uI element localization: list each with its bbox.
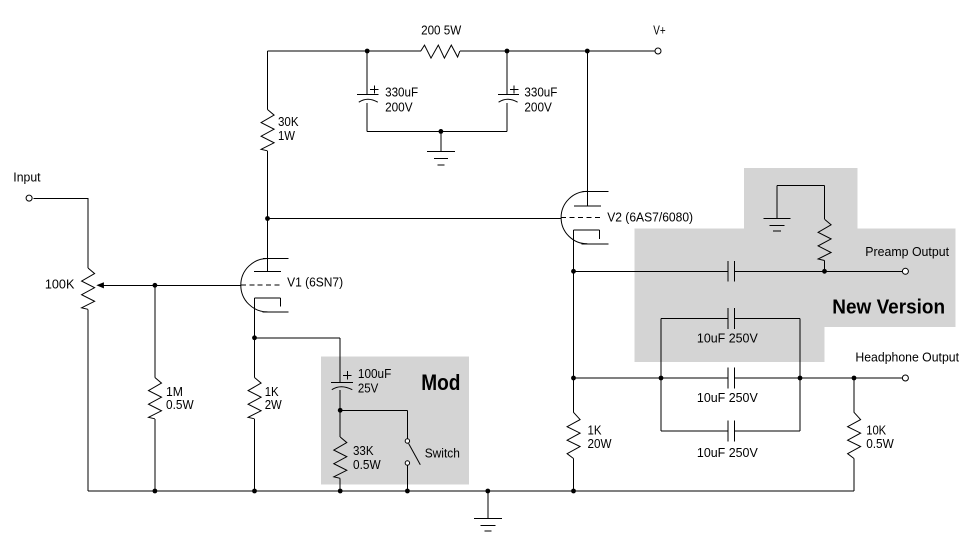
wire: 1M bottom to ground bus [154, 419, 156, 491]
svg-text:33K: 33K [353, 443, 374, 458]
node: headphone line left [571, 376, 576, 381]
svg-text:1W: 1W [278, 128, 296, 143]
label: 1K 2W [265, 384, 283, 412]
node: bus/33K [338, 489, 343, 494]
capacitor 10uF 250V (lower) [728, 421, 734, 442]
node: rail / C1 top [365, 49, 370, 54]
svg-text:V2 (6AS7/6080): V2 (6AS7/6080) [607, 210, 693, 225]
svg-text:Mod: Mod [421, 370, 460, 395]
capacitor 100uF 25V [331, 371, 353, 410]
pot wiper arrow [96, 282, 104, 288]
ground: filter caps [427, 131, 455, 165]
node: cap bus / ground [439, 129, 444, 134]
wire: junction up to preamp load resistor [824, 261, 826, 272]
svg-text:0.5W: 0.5W [166, 397, 194, 412]
svg-text:10uF 250V: 10uF 250V [697, 390, 758, 405]
gray highlight box: New Version lower tab [635, 327, 825, 362]
svg-text:20W: 20W [588, 436, 613, 451]
node: V1 cathode junction [252, 335, 257, 340]
wire: V2 plate drop [586, 51, 588, 206]
wire: ground bus [88, 490, 854, 492]
wire: switch bottom to ground bus [406, 465, 408, 491]
node: loop right [798, 376, 803, 381]
svg-text:New Version: New Version [832, 297, 945, 319]
label: 30K 1W [278, 114, 299, 143]
terminal: V+ [655, 48, 661, 54]
wire: lower parallel cap loop [661, 378, 800, 431]
label: 100uF 25V [358, 366, 391, 396]
svg-text:10uF 250V: 10uF 250V [697, 330, 758, 345]
node: bus/1M [153, 489, 158, 494]
wire: 10K bottom [853, 459, 855, 492]
wire: cathode junction to mod cap [255, 338, 341, 383]
resistor 1K 20W [567, 412, 580, 458]
gray highlight box: New Version main [635, 229, 956, 328]
potentiometer 100K element [82, 268, 95, 309]
svg-text:25V: 25V [358, 381, 379, 396]
triode V2 (6AS7/6080) [561, 191, 608, 271]
svg-text:2W: 2W [265, 397, 283, 412]
wire: preamp line right [735, 270, 903, 272]
wire: 1K 20W bottom to ground bus [573, 459, 575, 492]
svg-text:10uF 250V: 10uF 250V [697, 445, 758, 460]
wire: 1K bottom to ground bus [254, 419, 256, 491]
wire: cathode junction down to 1K [254, 338, 256, 378]
svg-text:330uF: 330uF [385, 84, 418, 99]
resistor 10K 0.5W [848, 412, 861, 458]
svg-text:Switch: Switch [425, 446, 460, 461]
wire: B+ rail right segment to V+ [460, 50, 655, 52]
wire: 33K bottom to ground bus [339, 478, 341, 491]
gray highlight box: New Version top notch [744, 168, 858, 229]
label: 1M 0.5W [166, 384, 194, 412]
node: bus/1K [252, 489, 257, 494]
resistor preamp load [818, 219, 831, 260]
wire: upper parallel cap loop [661, 319, 800, 379]
node: mod cap / switch branch [338, 408, 343, 413]
label: 330uF 200V (C1) [385, 84, 418, 114]
node: bus/main ground [485, 489, 490, 494]
triode V1 (6SN7) [241, 259, 289, 338]
wire: filter cap bottoms bus [367, 130, 507, 132]
wire: 10K top [853, 378, 855, 412]
label: 1K 20W [588, 423, 613, 451]
label: 10K 0.5W [866, 422, 894, 451]
capacitor preamp coupling [728, 261, 734, 282]
capacitor C2 330uF 200V [498, 51, 519, 131]
wire: headphone node down to 1K 20W [573, 378, 575, 412]
svg-text:Preamp Output: Preamp Output [865, 244, 949, 259]
node: wiper/1M junction [153, 283, 158, 288]
wire: V2 cathode down to headphone line [573, 271, 575, 378]
node: bus/1K 20W [571, 489, 576, 494]
wire: 30K bottom to V1 plate node [267, 151, 269, 219]
ground: main [474, 491, 502, 531]
wire: headphone line right segment [735, 377, 903, 379]
node: preamp resistor junction [822, 269, 827, 274]
svg-text:Input: Input [13, 170, 41, 185]
wire: node to switch top [340, 410, 407, 439]
svg-text:100uF: 100uF [358, 366, 391, 381]
wire: node down to 33K [339, 410, 341, 437]
svg-text:200V: 200V [385, 100, 413, 115]
terminal: headphone output [902, 375, 908, 381]
svg-text:Headphone Output: Headphone Output [855, 349, 959, 364]
wire: pot bottom to ground bus [87, 309, 89, 491]
gray highlight box: Mod [321, 357, 469, 485]
resistor 200 5W [421, 45, 460, 58]
node: rail / C2 top [505, 49, 510, 54]
wire: rail down to 30K [267, 51, 269, 110]
terminal: input jack [26, 195, 32, 201]
switch SW1 [405, 439, 420, 465]
svg-text:0.5W: 0.5W [866, 436, 894, 451]
resistor 1K 2W [248, 378, 261, 419]
svg-text:200 5W: 200 5W [421, 23, 462, 38]
svg-text:330uF: 330uF [524, 84, 557, 99]
node: bus/switch [405, 489, 410, 494]
svg-text:V1 (6SN7): V1 (6SN7) [287, 275, 343, 290]
wire: input jack to pot top [33, 198, 88, 268]
label: 33K 0.5W [353, 443, 381, 472]
capacitor 10uF 250V (upper) [728, 308, 734, 329]
capacitor 10uF 250V (on line) [728, 368, 734, 389]
wire: junction down to 1M top [154, 285, 156, 377]
resistor 30K 1W [261, 110, 274, 151]
capacitor C1 330uF 200V [357, 51, 379, 131]
wire: headphone line left segment [574, 377, 728, 379]
resistor 1M [149, 378, 162, 419]
wire: V1 plate node to V2 grid [268, 218, 562, 220]
wire: B+ rail left segment [268, 50, 421, 52]
node: V1 plate / V2 grid [265, 216, 270, 221]
wire: node down to V1 plate [267, 219, 269, 272]
node: rail / V2 plate [585, 49, 590, 54]
wire: preamp load resistor to ground arm [777, 185, 824, 219]
svg-text:200V: 200V [524, 100, 552, 115]
svg-text:V+: V+ [653, 23, 665, 38]
wire: preamp line left [574, 270, 728, 272]
ground: preamp load [764, 219, 791, 231]
svg-text:100K: 100K [45, 276, 75, 291]
svg-text:0.5W: 0.5W [353, 457, 381, 472]
resistor 33K 0.5W [334, 437, 347, 478]
wire: wiper to V1 grid [104, 284, 241, 286]
node: V2 cathode junction [571, 269, 576, 274]
node: loop left [659, 376, 664, 381]
terminal: preamp output [902, 268, 908, 274]
node: 10K top [852, 376, 857, 381]
label: 330uF 200V (C2) [524, 84, 557, 114]
